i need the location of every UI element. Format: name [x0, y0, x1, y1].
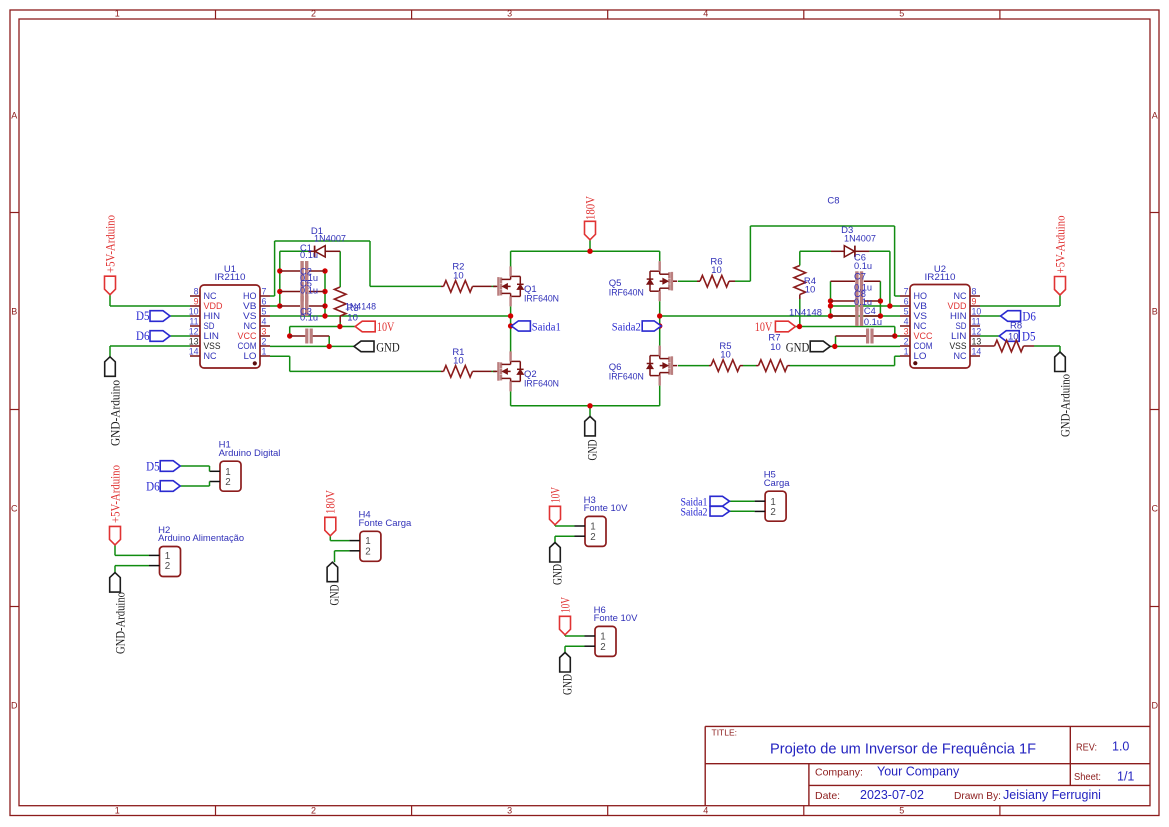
svg-text:7: 7	[262, 287, 267, 297]
capacitor C2	[280, 291, 300, 293]
svg-text:10: 10	[453, 270, 464, 281]
svg-text:5: 5	[262, 307, 267, 317]
svg-text:8: 8	[194, 287, 199, 297]
wire to R2	[370, 285, 441, 287]
svg-text:GND: GND	[584, 440, 599, 461]
power label GND-Arduino left	[105, 357, 116, 377]
svg-text:IRF640N: IRF640N	[524, 293, 559, 304]
svg-text:5: 5	[899, 805, 904, 815]
resistor R6	[697, 280, 700, 282]
svg-text:3: 3	[904, 327, 909, 337]
wire R2 to Q1 gate	[492, 285, 497, 287]
svg-text:HIN: HIN	[950, 311, 967, 321]
svg-text:VS: VS	[914, 311, 928, 321]
svg-text:0.1u: 0.1u	[300, 250, 318, 260]
svg-text:14: 14	[189, 347, 199, 357]
junction dots	[277, 268, 282, 273]
wire 10V to U2 VCC	[894, 327, 896, 337]
svg-text:Arduino Alimentação: Arduino Alimentação	[158, 533, 244, 544]
wire 180V drop	[589, 240, 591, 252]
U1 pin1 marker	[253, 361, 257, 365]
svg-text:Your Company: Your Company	[877, 765, 960, 779]
svg-text:IRF640N: IRF640N	[524, 378, 559, 389]
wire bottom rail	[511, 405, 660, 407]
svg-text:2023-07-02: 2023-07-02	[860, 788, 924, 802]
label D6 left	[150, 331, 170, 342]
svg-text:1: 1	[115, 9, 120, 19]
svg-text:7: 7	[904, 287, 909, 297]
svg-text:6: 6	[904, 297, 909, 307]
wire U1 VB to caps	[270, 305, 280, 307]
svg-text:8: 8	[972, 287, 977, 297]
svg-text:IR2110: IR2110	[215, 272, 246, 283]
power label 180V at H4	[325, 517, 336, 536]
svg-text:2: 2	[590, 532, 595, 543]
svg-text:10: 10	[770, 342, 781, 353]
label 10V left	[355, 321, 375, 332]
svg-text:180V: 180V	[582, 195, 597, 220]
wire D3 anode from R4	[800, 250, 831, 252]
wire C8 riser left	[749, 226, 751, 281]
svg-text:VSS: VSS	[950, 341, 967, 351]
U2 pins left	[900, 295, 910, 297]
wire U1 VSS to GND-Arduino	[110, 345, 190, 347]
svg-text:VDD: VDD	[204, 301, 223, 311]
frame column ticks	[215, 10, 217, 19]
capacitor C6	[831, 280, 856, 282]
svg-text:VB: VB	[243, 301, 257, 311]
wire down to U2 HO	[894, 226, 896, 296]
wire R4 bottom	[799, 299, 801, 327]
svg-text:1N4007: 1N4007	[314, 233, 346, 244]
svg-text:GND-Arduino: GND-Arduino	[1057, 374, 1072, 437]
svg-text:12: 12	[972, 327, 982, 337]
svg-text:GND: GND	[559, 674, 574, 695]
svg-text:Date:: Date:	[815, 790, 840, 802]
wire U1 COM to GND	[270, 345, 354, 347]
capacitor C4	[836, 335, 867, 337]
svg-text:NC: NC	[914, 321, 927, 331]
svg-text:5: 5	[904, 307, 909, 317]
svg-text:A: A	[1152, 111, 1158, 121]
label D5 right	[999, 331, 1019, 342]
svg-text:COM: COM	[238, 341, 257, 351]
svg-text:D: D	[11, 701, 18, 711]
power label GND at H4	[327, 562, 338, 582]
svg-text:+5V-Arduino: +5V-Arduino	[102, 215, 117, 273]
wire U2 VB row	[831, 305, 901, 307]
svg-text:1N4148: 1N4148	[345, 302, 376, 313]
svg-text:IRF640N: IRF640N	[609, 371, 644, 382]
svg-text:LIN: LIN	[204, 331, 220, 341]
svg-text:LO: LO	[914, 351, 927, 361]
svg-text:D6: D6	[136, 328, 150, 343]
wire top rail	[511, 250, 660, 252]
svg-text:HO: HO	[243, 291, 257, 301]
svg-text:3: 3	[507, 9, 512, 19]
svg-text:0.1u: 0.1u	[864, 317, 882, 327]
svg-text:Drawn By:: Drawn By:	[954, 791, 1001, 802]
wire U2 HIN to D6	[980, 315, 1001, 317]
svg-text:10: 10	[805, 285, 816, 296]
wire D5 to U1 HIN	[170, 315, 190, 317]
wire Q5 source to Q6 drain	[659, 301, 661, 346]
wire HO top run	[275, 240, 370, 242]
wire Q2 source	[510, 391, 512, 405]
svg-text:C8: C8	[827, 196, 839, 207]
wire R4 top	[799, 251, 801, 265]
svg-text:2: 2	[165, 561, 170, 572]
svg-text:SD: SD	[204, 321, 215, 331]
svg-text:B: B	[11, 307, 17, 317]
svg-text:10V: 10V	[547, 487, 562, 503]
wire 10V row right	[795, 326, 894, 328]
resistor R3 vertical	[334, 287, 346, 316]
wire bootstrap left vertical B	[324, 271, 326, 316]
resistor R5	[709, 365, 711, 367]
wire 10V row	[290, 326, 356, 328]
svg-text:VCC: VCC	[914, 331, 933, 341]
ic U2 IR2110 body	[910, 285, 970, 369]
svg-text:2: 2	[311, 805, 316, 815]
resistor R1	[441, 370, 444, 372]
svg-text:11: 11	[972, 317, 981, 327]
svg-text:1.0: 1.0	[1112, 740, 1129, 754]
power label 10V at H6	[560, 616, 571, 635]
svg-text:Company:: Company:	[815, 767, 863, 779]
svg-text:2: 2	[262, 337, 267, 347]
svg-text:Saida2: Saida2	[612, 320, 641, 334]
svg-text:Fonte 10V: Fonte 10V	[584, 503, 628, 514]
title block outline	[705, 725, 1150, 727]
label D6 right	[1001, 311, 1021, 322]
svg-text:1: 1	[262, 347, 267, 357]
power label GND-Arduino at H2	[110, 573, 121, 593]
svg-text:NC: NC	[204, 351, 217, 361]
power label GND at H3	[550, 543, 561, 563]
svg-text:COM: COM	[914, 341, 933, 351]
diode D3 1N4007	[831, 250, 844, 252]
U1 pins left	[190, 295, 200, 297]
power label GND bottom	[585, 416, 596, 436]
wire Saida1 stub	[511, 325, 514, 327]
label Saida1 center	[511, 321, 530, 331]
wire R3 bottom	[339, 323, 341, 327]
wire +5V-Arduino right to U2 VDD	[1059, 295, 1061, 306]
transistor Q2 IRF640N	[497, 362, 499, 381]
svg-text:D6: D6	[1022, 309, 1036, 324]
svg-text:10: 10	[720, 350, 731, 361]
svg-text:Jeisiany Ferrugini: Jeisiany Ferrugini	[1003, 788, 1101, 802]
svg-text:14: 14	[972, 347, 982, 357]
wire Q5 gate to R6	[678, 280, 700, 282]
svg-text:GND: GND	[549, 564, 564, 585]
svg-text:2: 2	[311, 9, 316, 19]
wire bootstrap right vertical A	[830, 281, 832, 316]
capacitor C7	[831, 300, 856, 302]
svg-text:2: 2	[600, 642, 605, 653]
power label 10V at H3	[550, 506, 561, 525]
svg-text:IR2110: IR2110	[925, 272, 956, 283]
svg-text:VDD: VDD	[948, 301, 967, 311]
svg-text:10: 10	[189, 307, 199, 317]
svg-text:Carga: Carga	[764, 478, 791, 489]
svg-text:HIN: HIN	[204, 311, 221, 321]
svg-text:A: A	[11, 111, 17, 121]
svg-text:4: 4	[904, 317, 909, 327]
label D5 left	[150, 311, 170, 322]
svg-text:GND: GND	[786, 339, 810, 354]
svg-text:TITLE:: TITLE:	[712, 728, 738, 738]
wire U2 LIN to D5	[980, 335, 999, 337]
wire U1 HO riser	[270, 295, 275, 297]
svg-text:0.1u: 0.1u	[300, 312, 318, 322]
svg-text:2: 2	[770, 507, 775, 518]
svg-text:D5: D5	[146, 458, 160, 473]
svg-text:NC: NC	[954, 351, 967, 361]
svg-text:NC: NC	[244, 321, 257, 331]
svg-text:+5V-Arduino: +5V-Arduino	[107, 465, 122, 523]
label D5 at H1	[160, 461, 180, 472]
wire GND drop	[589, 406, 591, 417]
wire U1 LO out	[270, 355, 290, 357]
svg-text:Arduino Digital: Arduino Digital	[219, 448, 281, 459]
svg-text:0.1u: 0.1u	[854, 261, 872, 271]
resistor R7	[756, 365, 759, 367]
wire bootstrap right vertical B	[879, 281, 881, 316]
wire U1 VS long	[270, 315, 511, 317]
svg-text:D5: D5	[136, 308, 150, 323]
wire R1 to Q2 gate	[492, 370, 497, 372]
wire R8 to GND-Arduino right	[1034, 345, 1060, 347]
power label GND at H6	[560, 653, 571, 673]
svg-text:4: 4	[703, 9, 708, 19]
svg-text:9: 9	[194, 297, 199, 307]
svg-text:3: 3	[262, 327, 267, 337]
capacitor C1	[280, 270, 300, 272]
wire D6 to U1 LIN	[170, 335, 190, 337]
wire HO down to R2	[369, 241, 371, 286]
capacitor C5	[280, 305, 300, 307]
power label +5V-Arduino left	[105, 276, 116, 295]
svg-text:13: 13	[972, 337, 982, 347]
svg-text:NC: NC	[954, 291, 967, 301]
wire bootstrap left vertical A	[279, 251, 281, 306]
wire R5 to R7	[743, 365, 756, 367]
label D6 at H1	[160, 481, 180, 492]
wire Q1 source to Q2 drain	[510, 306, 512, 351]
svg-text:9: 9	[972, 297, 977, 307]
wire U2 COM row	[830, 345, 900, 347]
svg-text:Projeto de um Inversor de Freq: Projeto de um Inversor de Frequência 1F	[770, 742, 1036, 758]
svg-text:4: 4	[262, 317, 267, 327]
svg-text:GND-Arduino: GND-Arduino	[112, 592, 127, 654]
svg-text:IRF640N: IRF640N	[609, 288, 644, 299]
connector H3 Fonte 10V	[585, 516, 606, 546]
svg-text:10: 10	[711, 265, 722, 276]
wire C4 to COM	[835, 336, 837, 346]
svg-text:10: 10	[453, 355, 464, 366]
label 10V right	[775, 321, 795, 332]
H6 wires	[564, 635, 566, 636]
svg-text:11: 11	[189, 317, 198, 327]
resistor R8	[980, 345, 995, 347]
svg-text:D6: D6	[146, 478, 160, 493]
svg-text:C7: C7	[854, 271, 866, 281]
svg-text:C: C	[11, 504, 18, 514]
transistor Q6 IRF640N	[671, 356, 673, 375]
connector H6 Fonte 10V	[595, 626, 616, 656]
svg-text:0.1u: 0.1u	[300, 286, 318, 296]
svg-text:10V: 10V	[377, 319, 395, 334]
U2 pins right	[970, 295, 980, 297]
diode D1 1N4007	[309, 250, 315, 252]
label Saida2 center	[642, 321, 661, 331]
power label GND-Arduino right	[1055, 352, 1066, 372]
svg-text:Sheet:: Sheet:	[1074, 771, 1101, 783]
svg-text:D: D	[1151, 701, 1158, 711]
svg-text:2: 2	[225, 477, 230, 488]
svg-text:GND: GND	[327, 585, 342, 606]
svg-text:VSS: VSS	[204, 341, 221, 351]
wire Q6 gate to R5	[678, 365, 709, 367]
transistor Q1 IRF640N	[497, 277, 499, 296]
ic U1 IR2110 body	[200, 285, 260, 368]
power label +5V-Arduino at H2	[110, 526, 121, 545]
svg-text:6: 6	[262, 297, 267, 307]
svg-text:REV:: REV:	[1076, 742, 1097, 754]
wire to D1 anode	[280, 250, 309, 252]
H3 wires	[554, 525, 556, 526]
svg-text:2: 2	[904, 337, 909, 347]
wire U2 VS long	[660, 315, 900, 317]
svg-text:1: 1	[115, 805, 120, 815]
wire Saida2 stub	[660, 325, 661, 327]
wire Q1 drain	[510, 251, 512, 266]
connector H2 Arduino Alimentacao	[160, 547, 181, 577]
connector H1 Arduino Digital	[220, 461, 241, 491]
svg-text:Saida1: Saida1	[532, 320, 561, 334]
svg-text:10: 10	[347, 312, 358, 323]
svg-text:1/1: 1/1	[1117, 770, 1134, 784]
svg-text:HO: HO	[914, 291, 928, 301]
svg-text:VS: VS	[243, 311, 257, 321]
svg-text:R8: R8	[1010, 320, 1022, 331]
U1 pins right	[260, 295, 270, 297]
svg-text:2: 2	[365, 546, 370, 557]
H4 wires	[329, 536, 331, 541]
wire Q5 drain	[659, 251, 661, 261]
label GND right	[810, 341, 830, 352]
svg-text:Saida2: Saida2	[681, 505, 708, 519]
wire D3 down to VB	[889, 251, 891, 306]
wire Q6 source	[659, 386, 661, 406]
svg-text:GND: GND	[376, 339, 400, 354]
U2 pin1 marker	[913, 361, 917, 365]
wire R6 to riser	[735, 280, 750, 282]
svg-text:VB: VB	[914, 301, 928, 311]
connector H4 Fonte Carga	[360, 531, 381, 561]
connector H5 Carga	[765, 491, 786, 521]
svg-text:LIN: LIN	[951, 331, 967, 341]
svg-text:1N4148: 1N4148	[789, 307, 822, 318]
svg-text:12: 12	[189, 327, 199, 337]
H5 wires	[730, 500, 755, 502]
svg-text:1N4007: 1N4007	[844, 234, 876, 245]
power label +5V-Arduino right	[1055, 277, 1066, 296]
svg-text:VCC: VCC	[238, 331, 257, 341]
H1 wires	[180, 465, 209, 467]
svg-text:C: C	[1151, 504, 1158, 514]
svg-text:LO: LO	[244, 351, 257, 361]
svg-text:C4: C4	[864, 306, 876, 316]
label Saida1 at H5	[710, 496, 730, 506]
frame row ticks	[10, 212, 19, 214]
wire C8 top run	[750, 225, 894, 227]
svg-text:180V: 180V	[323, 489, 338, 514]
label Saida2 at H5	[710, 506, 730, 516]
wire D3 cathode run	[869, 250, 890, 252]
svg-text:Fonte 10V: Fonte 10V	[594, 613, 638, 624]
capacitor C3	[290, 335, 306, 337]
svg-text:1: 1	[904, 347, 909, 357]
capacitor C8 plates	[831, 315, 856, 317]
resistor R4 vertical	[794, 266, 806, 295]
svg-text:SD: SD	[956, 321, 967, 331]
svg-text:3: 3	[507, 805, 512, 815]
label GND left	[354, 341, 374, 352]
wire +5V-Arduino to U1 VDD	[109, 295, 111, 307]
wire 10V to VCC	[289, 327, 291, 337]
resistor R2	[441, 285, 444, 287]
svg-text:5: 5	[899, 9, 904, 19]
transistor Q5 IRF640N	[671, 272, 673, 291]
wire R7 to U2 LO	[790, 365, 895, 367]
svg-text:B: B	[1152, 307, 1158, 317]
H2 wires	[114, 545, 116, 556]
wire D1 cathode down to R3	[339, 251, 341, 287]
svg-text:10: 10	[972, 307, 982, 317]
power label 180V top	[585, 221, 596, 240]
wire C3 to COM	[328, 336, 330, 346]
svg-text:13: 13	[189, 337, 199, 347]
svg-text:10: 10	[1008, 332, 1019, 343]
svg-text:GND-Arduino: GND-Arduino	[108, 380, 123, 446]
svg-text:10V: 10V	[557, 597, 572, 613]
svg-text:+5V-Arduino: +5V-Arduino	[1052, 216, 1067, 274]
svg-text:4: 4	[703, 805, 708, 815]
svg-text:D5: D5	[1022, 329, 1036, 344]
svg-text:NC: NC	[204, 291, 217, 301]
svg-text:Fonte Carga: Fonte Carga	[359, 518, 413, 529]
